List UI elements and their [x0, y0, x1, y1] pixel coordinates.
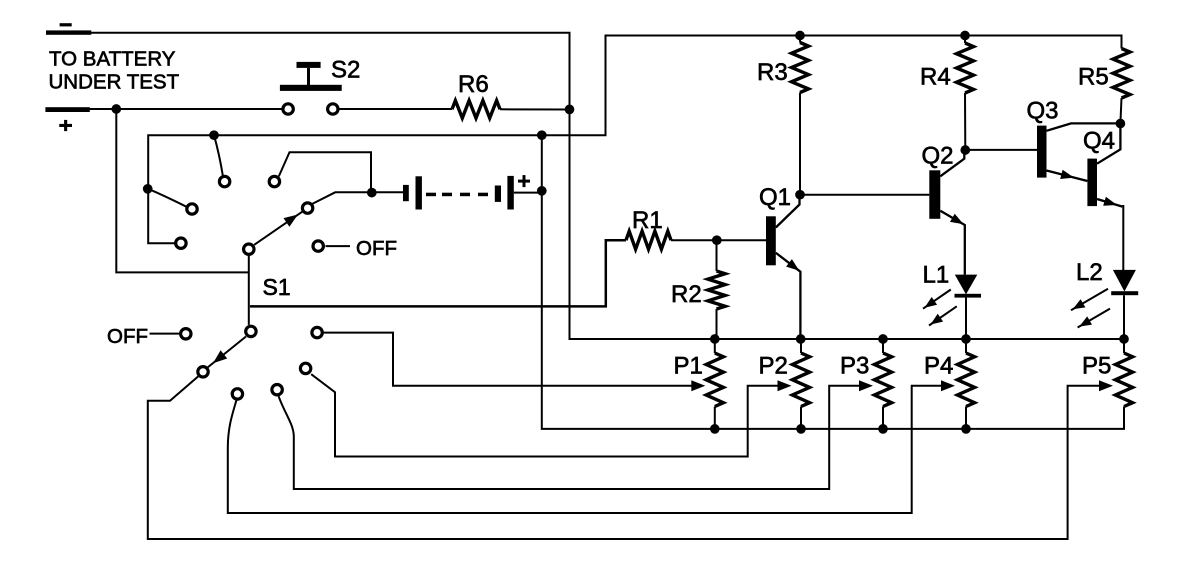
svg-text:OFF: OFF [356, 237, 397, 260]
svg-text:R6: R6 [458, 71, 489, 98]
svg-text:P4: P4 [924, 353, 953, 380]
svg-text:R1: R1 [632, 207, 663, 234]
svg-text:R2: R2 [671, 281, 702, 308]
svg-text:UNDER TEST: UNDER TEST [49, 71, 180, 94]
svg-text:R4: R4 [920, 64, 951, 91]
svg-text:Q3: Q3 [1027, 98, 1059, 125]
svg-text:P2: P2 [759, 353, 788, 380]
svg-text:P5: P5 [1082, 353, 1111, 380]
svg-text:S2: S2 [331, 57, 360, 84]
svg-text:OFF: OFF [107, 325, 148, 348]
svg-text:TO BATTERY: TO BATTERY [49, 47, 176, 70]
svg-text:P1: P1 [674, 353, 703, 380]
svg-text:S1: S1 [263, 274, 291, 300]
svg-text:Q2: Q2 [922, 143, 954, 170]
svg-text:L1: L1 [923, 262, 950, 289]
svg-text:R5: R5 [1078, 64, 1109, 91]
svg-text:L2: L2 [1076, 259, 1103, 286]
svg-text:R3: R3 [757, 59, 788, 86]
svg-text:P3: P3 [840, 353, 869, 380]
svg-text:Q4: Q4 [1083, 128, 1115, 155]
svg-text:Q1: Q1 [759, 184, 791, 211]
